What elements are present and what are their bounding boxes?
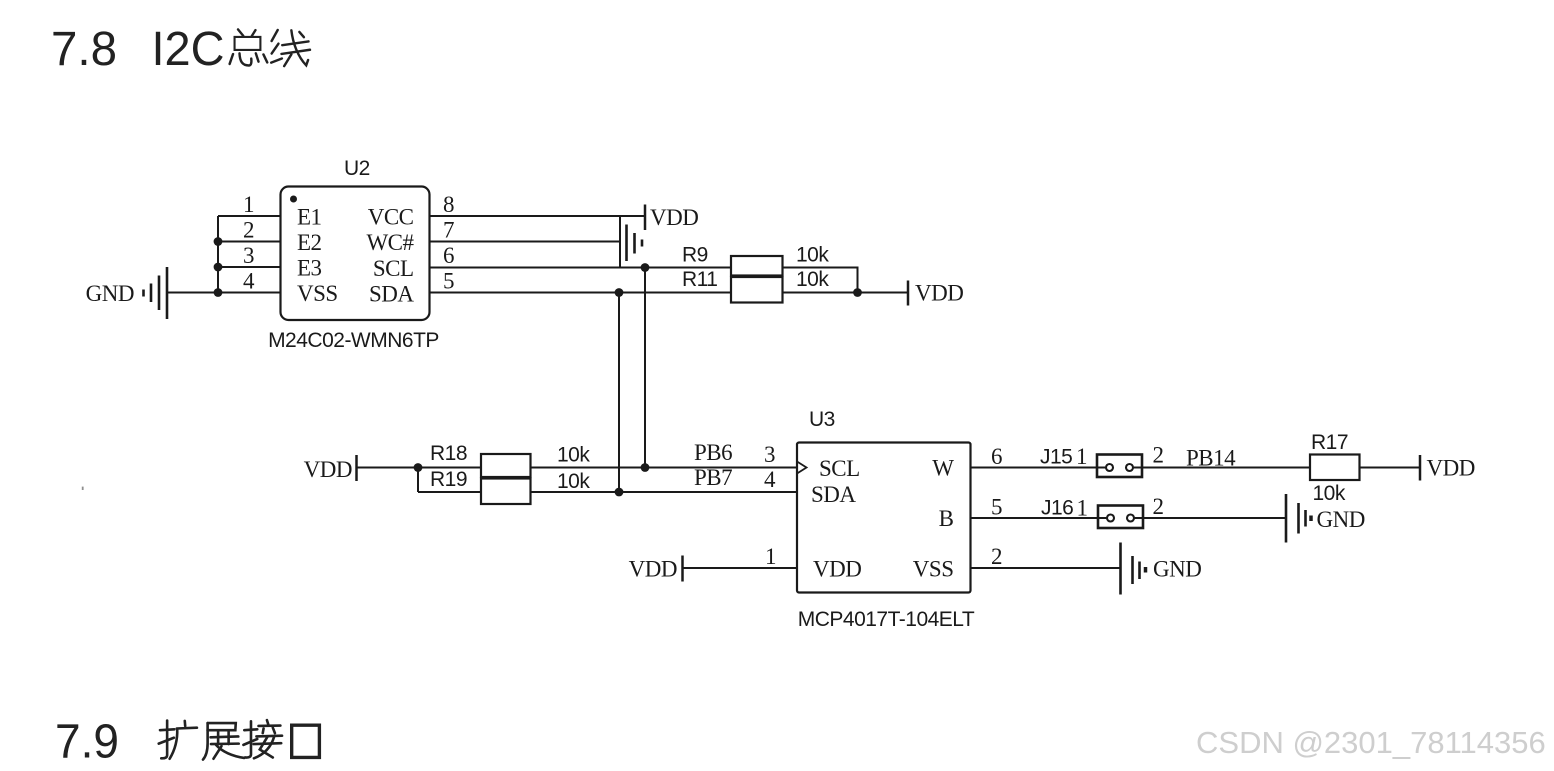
svg-text:7.8: 7.8 xyxy=(51,22,117,76)
svg-text:VDD: VDD xyxy=(650,205,698,230)
svg-text:VDD: VDD xyxy=(304,457,352,482)
svg-text:R17: R17 xyxy=(1311,431,1348,454)
hanzi jie (接) xyxy=(243,720,282,758)
resistor R17 xyxy=(1310,431,1360,505)
node SDA junction xyxy=(615,288,624,297)
svg-text:1: 1 xyxy=(1076,444,1087,469)
ic U2 xyxy=(268,157,439,352)
svg-text:WC#: WC# xyxy=(366,230,414,255)
svg-text:E3: E3 xyxy=(297,256,322,281)
pin 3 wire xyxy=(218,243,281,268)
svg-text:SDA: SDA xyxy=(811,482,856,507)
left rail wire xyxy=(214,216,223,297)
power VDD (R17) xyxy=(1420,455,1475,481)
svg-text:J15: J15 xyxy=(1040,446,1072,469)
ground GND (J16) xyxy=(1286,494,1365,543)
svg-text:VCC: VCC xyxy=(368,205,414,230)
wire R9 right xyxy=(783,268,858,293)
wire SDA vertical bus xyxy=(618,293,620,493)
pin 5 wire B xyxy=(971,495,1099,520)
svg-text:5: 5 xyxy=(443,269,454,294)
hanzi zhan (展) xyxy=(203,723,244,760)
svg-text:6: 6 xyxy=(443,243,454,268)
svg-text:PB6: PB6 xyxy=(694,440,732,465)
svg-text:7: 7 xyxy=(443,218,454,243)
svg-text:10k: 10k xyxy=(796,244,829,267)
svg-text:10k: 10k xyxy=(557,470,590,493)
pin 6 wire W xyxy=(971,444,1098,469)
heading 7.8 I2C xyxy=(51,22,225,76)
svg-text:2: 2 xyxy=(243,218,254,243)
resistor R11 xyxy=(682,268,829,303)
hanzi zong (总) xyxy=(230,29,268,65)
svg-text:10k: 10k xyxy=(1313,482,1346,505)
svg-text:7.9: 7.9 xyxy=(55,715,119,769)
wire PB6 net xyxy=(531,440,798,472)
power VDD (left, R18) xyxy=(304,455,357,482)
svg-text:W: W xyxy=(932,456,954,481)
ground GND left xyxy=(86,267,167,319)
svg-text:U2: U2 xyxy=(344,157,370,180)
svg-text:6: 6 xyxy=(991,444,1002,469)
svg-text:GND: GND xyxy=(86,281,134,306)
pin 2 wire VSS xyxy=(971,544,1121,569)
svg-text:J16: J16 xyxy=(1041,497,1073,520)
wire R17 to VDD xyxy=(1360,467,1420,469)
svg-text:4: 4 xyxy=(243,269,255,294)
svg-text:R19: R19 xyxy=(430,468,467,491)
svg-text:10k: 10k xyxy=(557,444,590,467)
svg-text:3: 3 xyxy=(243,243,254,268)
svg-text:R9: R9 xyxy=(682,244,708,267)
svg-text:VSS: VSS xyxy=(913,557,954,582)
pin 1 wire U3 xyxy=(683,544,797,569)
hanzi kuo (扩) xyxy=(159,721,197,759)
wire J16 to GND xyxy=(1143,517,1286,519)
svg-text:CSDN @2301_78114356: CSDN @2301_78114356 xyxy=(1196,725,1546,760)
svg-text:VDD: VDD xyxy=(915,281,963,306)
stray mark xyxy=(82,487,84,490)
power VDD (right of R9/R11) xyxy=(908,281,963,306)
resistor R9 xyxy=(682,244,829,276)
svg-text:VSS: VSS xyxy=(297,281,338,306)
svg-text:E2: E2 xyxy=(297,230,322,255)
svg-text:5: 5 xyxy=(991,495,1002,520)
svg-text:PB7: PB7 xyxy=(694,465,732,490)
svg-text:SCL: SCL xyxy=(819,456,860,481)
wire VDD to R18/R19 xyxy=(357,463,481,492)
jumper J15 xyxy=(1040,443,1164,478)
svg-text:2: 2 xyxy=(1153,443,1164,468)
node SCL junction xyxy=(641,263,650,272)
watermark xyxy=(1196,725,1546,760)
svg-text:SCL: SCL xyxy=(373,256,414,281)
hanzi xian (线) xyxy=(271,30,310,66)
pin 5 wire SDA xyxy=(430,269,732,294)
svg-text:8: 8 xyxy=(443,192,454,217)
pin 2 wire xyxy=(218,218,281,243)
svg-text:R18: R18 xyxy=(430,442,467,465)
wire SCL vertical bus xyxy=(644,268,646,468)
pin 6 wire SCL xyxy=(430,243,732,268)
svg-text:MCP4017T-104ELT: MCP4017T-104ELT xyxy=(798,608,975,631)
svg-text:VDD: VDD xyxy=(629,557,677,582)
svg-text:1: 1 xyxy=(243,192,254,217)
ground (WC#) xyxy=(627,225,643,262)
svg-text:1: 1 xyxy=(1077,496,1088,521)
svg-text:R11: R11 xyxy=(682,268,717,291)
ic U3 xyxy=(797,408,975,631)
svg-text:E1: E1 xyxy=(297,205,322,230)
wire vertical VCC drop xyxy=(619,216,621,268)
pin 7 wire xyxy=(430,218,621,243)
resistor R19 xyxy=(430,468,590,504)
svg-text:10k: 10k xyxy=(796,268,829,291)
svg-text:B: B xyxy=(939,506,954,531)
wire PB14 net xyxy=(1142,446,1310,471)
svg-text:U3: U3 xyxy=(809,408,835,431)
power VDD (top) xyxy=(645,205,698,231)
jumper J16 xyxy=(1041,494,1164,528)
svg-text:2: 2 xyxy=(991,544,1002,569)
power VDD (U3 pin 1) xyxy=(629,556,683,582)
wire PB7 net xyxy=(531,465,798,496)
resistor R18 xyxy=(430,442,590,477)
svg-text:SDA: SDA xyxy=(369,282,414,307)
wire R11 right xyxy=(783,288,908,297)
svg-text:1: 1 xyxy=(765,544,776,569)
ground GND (VSS) xyxy=(1121,543,1202,595)
svg-text:GND: GND xyxy=(1153,557,1201,582)
svg-text:3: 3 xyxy=(764,442,775,467)
svg-text:4: 4 xyxy=(764,467,776,492)
hanzi kou (口) xyxy=(292,725,320,757)
svg-text:M24C02-WMN6TP: M24C02-WMN6TP xyxy=(268,329,439,352)
svg-text:I2C: I2C xyxy=(152,22,225,76)
pin 1 wire xyxy=(218,192,281,217)
svg-text:2: 2 xyxy=(1153,494,1164,519)
pin 8 wire to VDD xyxy=(430,192,645,217)
svg-text:GND: GND xyxy=(1317,507,1365,532)
pin 4 wire to GND xyxy=(168,269,281,294)
svg-text:VDD: VDD xyxy=(1427,456,1475,481)
svg-text:VDD: VDD xyxy=(813,557,861,582)
svg-text:PB14: PB14 xyxy=(1186,446,1236,471)
heading 7.9 xyxy=(55,715,119,769)
